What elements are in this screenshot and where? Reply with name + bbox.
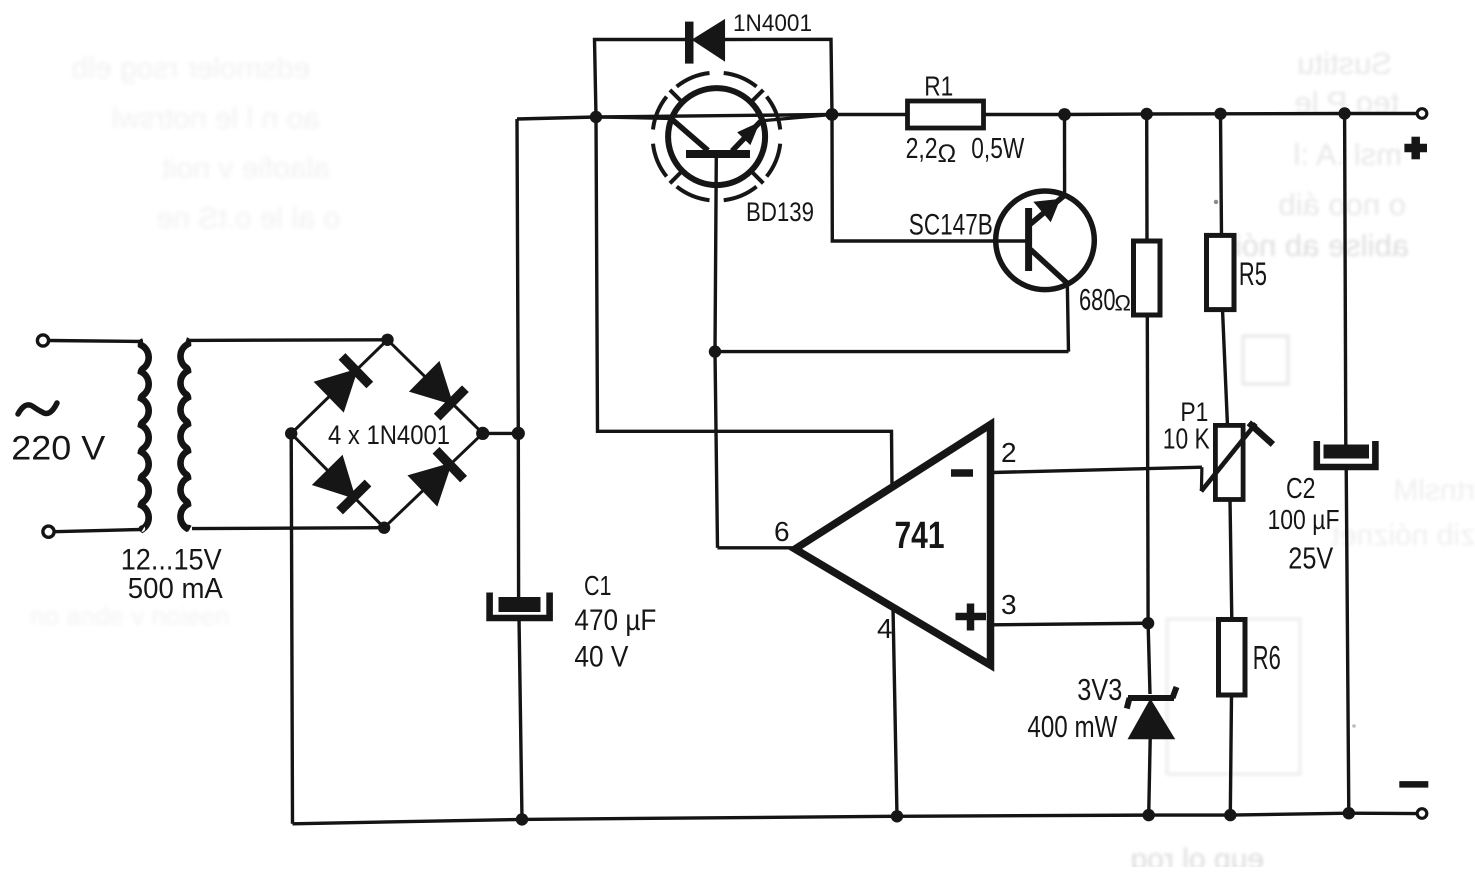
svg-text:100 µF: 100 µF	[1268, 504, 1340, 535]
svg-text:2: 2	[1001, 437, 1017, 468]
op-amp pin2 wire	[992, 467, 1202, 472]
svg-text:BD139: BD139	[746, 197, 814, 227]
svg-text:220 V: 220 V	[11, 430, 105, 468]
svg-text:o noo áib: o noo áib	[1278, 187, 1406, 222]
node C1 bottom on rail	[516, 813, 528, 825]
svg-text:C1: C1	[584, 570, 612, 601]
bridge diode D2 top-right	[411, 363, 466, 417]
node BD139 emitter / R1 left	[826, 108, 839, 121]
svg-text:470 µF: 470 µF	[574, 604, 656, 637]
base bar	[1025, 208, 1032, 271]
svg-text:500 mA: 500 mA	[128, 573, 224, 605]
P1 to R6	[1230, 499, 1232, 620]
svg-text:3: 3	[1001, 589, 1017, 620]
emitter diagonal	[1031, 196, 1065, 225]
svg-text:msl .A :l: msl .A :l	[1293, 137, 1402, 172]
svg-text:no ande v noieen: no ande v noieen	[30, 601, 230, 631]
wire +raw column x518	[517, 119, 519, 597]
svg-text:40 V: 40 V	[574, 641, 628, 674]
AC terminal lower	[43, 526, 54, 537]
svg-text:rtnslM: rtnslM	[1393, 474, 1475, 507]
op-amp V+ pin7 wire	[596, 117, 892, 487]
680ohm column	[1145, 114, 1149, 241]
wire primary bottom lead	[54, 530, 141, 532]
node 680ohm top	[1141, 108, 1153, 120]
transformer T1 secondary winding	[180, 340, 190, 528]
wire primary top lead	[49, 341, 143, 342]
wiper T bar	[1249, 423, 1273, 445]
zener diode 3V3	[1127, 687, 1177, 739]
node V+ raw left	[590, 111, 602, 123]
diode 1N4001 top	[685, 20, 724, 63]
op-amp U1 741	[795, 425, 991, 666]
svg-text:eup ol roq: eup ol roq	[1131, 843, 1264, 867]
SC147B base wire	[832, 115, 1026, 242]
node bridge left vertex	[285, 427, 297, 439]
node zener on rail	[1143, 809, 1155, 821]
node bridge bottom vertex	[378, 522, 390, 534]
wire collector into circle	[596, 117, 670, 119]
ghost bleed-through text top-right	[1219, 46, 1409, 263]
op-amp pin4 wire	[893, 608, 897, 817]
svg-text:ao n l le notrswl: ao n l le notrswl	[112, 102, 320, 135]
R5 column	[1221, 114, 1222, 236]
transformer T1 primary winding	[141, 342, 149, 530]
svg-text:3V3: 3V3	[1077, 672, 1122, 707]
ghost text bottom	[1131, 843, 1264, 872]
resistor R1	[908, 101, 984, 128]
wiper elbow	[1200, 467, 1204, 491]
ghost bleed-through text mid-right	[1331, 474, 1475, 552]
node bridge right vertex	[476, 427, 489, 440]
node pin3 / zener top	[1142, 617, 1154, 629]
svg-text:o al le o.tS ne: o al le o.tS ne	[157, 202, 340, 235]
AC terminal upper	[37, 335, 48, 346]
node C2 top	[1338, 107, 1350, 119]
wire secondary bottom to bridge bottom vertex	[192, 526, 384, 530]
emitter arrow	[1034, 200, 1059, 222]
wire emitter out of circle	[761, 115, 832, 121]
svg-text:0,5W: 0,5W	[971, 133, 1024, 165]
output terminal +	[1417, 109, 1427, 119]
diode bypass loop wires	[595, 40, 686, 118]
svg-text:alaofie v noit: alaofie v noit	[161, 152, 330, 185]
C1 bottom lead	[519, 617, 522, 819]
wire bridge right vertex to C1 node	[483, 432, 519, 435]
collector diagonal	[671, 119, 708, 151]
svg-text:R1: R1	[924, 71, 953, 102]
capacitor C2	[1317, 441, 1376, 467]
svg-text:4: 4	[877, 613, 893, 644]
case ticks	[670, 90, 683, 103]
base bar	[686, 150, 750, 158]
wire secondary top to bridge top vertex	[188, 338, 388, 342]
svg-text:2,2: 2,2	[906, 133, 938, 165]
dashed case circle	[653, 73, 781, 201]
AC sine symbol	[18, 403, 57, 414]
capacitor C1	[490, 593, 550, 619]
transistor Q1 BD139	[596, 73, 832, 201]
svg-text:zib nóiznet: zib nóiznet	[1331, 519, 1475, 552]
node BD139 base / SC147B collector	[709, 345, 721, 357]
svg-text:741: 741	[895, 515, 945, 557]
emitter arrow	[738, 123, 759, 144]
svg-text:10 K: 10 K	[1163, 424, 1211, 456]
C2 column	[1345, 114, 1346, 446]
wiper arrow diagonal	[1201, 424, 1256, 492]
svg-text:R6: R6	[1253, 639, 1281, 676]
ghost box lower-right	[1167, 619, 1300, 774]
resistor R6	[1219, 620, 1246, 696]
node C2 on rail	[1343, 807, 1355, 819]
svg-text:Ω: Ω	[938, 140, 957, 168]
svg-text:680: 680	[1079, 282, 1116, 317]
BD139 base / SC147B collector net	[715, 156, 718, 548]
wire top rail left corner	[517, 114, 1418, 120]
SC147B emitter riser	[1063, 115, 1066, 197]
svg-text:R5: R5	[1239, 256, 1267, 292]
circle	[668, 88, 765, 185]
resistor R5	[1207, 235, 1235, 309]
wire bridge left vertex down to 0V rail	[291, 434, 292, 824]
node C1 top junction	[512, 427, 525, 440]
minus symbol	[1399, 781, 1428, 788]
svg-text:SC147B: SC147B	[909, 209, 993, 242]
op-amp pin3 wire	[992, 623, 1148, 625]
SC147B collector drop	[1067, 283, 1068, 352]
plus symbol	[1404, 137, 1427, 160]
node pin4 on rail	[891, 810, 903, 822]
transistor Q2 SC147B	[996, 191, 1095, 290]
0V bottom rail	[293, 813, 1418, 824]
bridge diode D1 top-left	[316, 356, 370, 410]
resistor 680ohm	[1134, 241, 1161, 315]
wire op-amp out pin6	[718, 546, 796, 549]
svg-text:25V: 25V	[1288, 540, 1333, 575]
emitter diagonal	[732, 122, 761, 152]
svg-text:400 mW: 400 mW	[1027, 709, 1118, 744]
ghost box upper	[1243, 336, 1288, 384]
svg-text:P1: P1	[1180, 397, 1208, 427]
ghost bleed-through text top-left	[72, 52, 340, 235]
node bridge top vertex	[381, 334, 393, 346]
collector diagonal	[1031, 250, 1068, 284]
svg-text:4 x 1N4001: 4 x 1N4001	[328, 420, 450, 450]
paper speck	[1214, 200, 1218, 204]
svg-text:6: 6	[774, 516, 790, 547]
svg-text:1N4001: 1N4001	[733, 10, 812, 37]
svg-text:Sustitu: Sustitu	[1297, 46, 1392, 81]
output terminal -	[1417, 809, 1427, 819]
bridge rectifier frame	[291, 340, 483, 528]
plus input mark	[956, 604, 987, 631]
bridge diode D4 bottom-right	[409, 450, 463, 504]
bridge diode D3 bottom-left	[314, 457, 368, 511]
minus input mark	[951, 469, 973, 477]
potentiometer P1	[1215, 425, 1243, 499]
node R6 on rail	[1224, 809, 1236, 821]
node R5 top	[1214, 108, 1226, 120]
svg-text:C2: C2	[1286, 473, 1316, 505]
node R1 right / SC147B emitter	[1058, 108, 1071, 121]
svg-text:12...15V: 12...15V	[121, 543, 222, 576]
svg-text:edsmoler rsog elb: edsmoler rsog elb	[72, 52, 310, 85]
svg-text:Ω: Ω	[1115, 291, 1131, 316]
